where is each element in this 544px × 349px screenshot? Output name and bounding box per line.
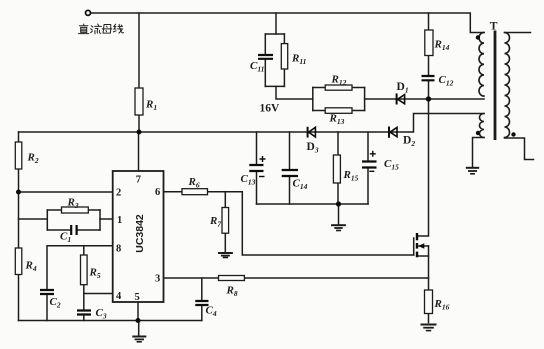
svg-text:5: 5 bbox=[135, 292, 140, 303]
svg-text:4: 4 bbox=[116, 291, 122, 302]
svg-text:16V: 16V bbox=[260, 103, 281, 115]
svg-text:1: 1 bbox=[117, 215, 122, 226]
svg-text:6: 6 bbox=[155, 187, 160, 198]
svg-text:7: 7 bbox=[136, 175, 141, 186]
svg-text:3: 3 bbox=[155, 274, 160, 285]
svg-text:UC3842: UC3842 bbox=[134, 214, 146, 253]
svg-text:2: 2 bbox=[116, 188, 121, 199]
svg-text:8: 8 bbox=[116, 244, 121, 255]
svg-text:T: T bbox=[490, 21, 498, 33]
